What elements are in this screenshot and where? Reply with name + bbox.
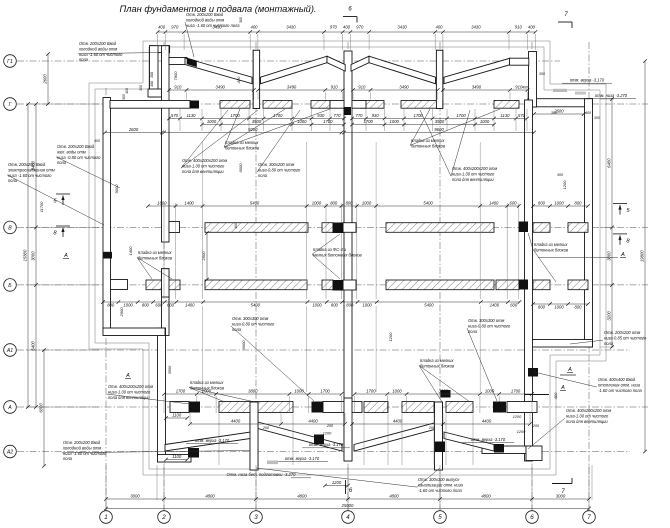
svg-text:Отв. 200х200 Ввод: Отв. 200х200 Ввод	[79, 41, 117, 46]
svg-text:низа-1.00 от чистого: низа-1.00 от чистого	[566, 413, 609, 418]
svg-text:Кладка из мелких: Кладка из мелких	[190, 380, 224, 385]
svg-text:200: 200	[262, 426, 270, 430]
svg-text:200: 200	[326, 424, 334, 428]
svg-text:1000: 1000	[207, 119, 217, 124]
svg-text:-1.60 от чистого пола: -1.60 от чистого пола	[598, 388, 643, 393]
svg-text:300: 300	[539, 72, 545, 76]
svg-text:570: 570	[518, 113, 526, 118]
svg-text:В: В	[8, 226, 12, 232]
diagonal walls	[185, 58, 252, 84]
svg-text:низа -1.60 от чистого: низа -1.60 от чистого	[79, 52, 123, 57]
svg-text:А: А	[63, 253, 68, 259]
svg-text:холодной воды отм: холодной воды отм	[78, 46, 117, 51]
svg-text:бетонных блоков: бетонных блоков	[190, 385, 225, 390]
svg-text:400: 400	[585, 111, 591, 115]
svg-text:800: 800	[330, 201, 338, 206]
svg-text:600: 600	[167, 303, 175, 308]
svg-text:7: 7	[587, 514, 591, 521]
svg-text:400: 400	[150, 81, 154, 87]
svg-text:низа-0.80 от чистого: низа-0.80 от чистого	[232, 321, 275, 326]
svg-text:пола для вентиляции: пола для вентиляции	[452, 177, 494, 182]
svg-text:жел. воды отм: жел. воды отм	[56, 149, 86, 154]
svg-text:1700: 1700	[456, 113, 466, 118]
svg-text:отм. низа -3.270: отм. низа -3.270	[595, 93, 628, 98]
svg-text:200: 200	[532, 424, 540, 428]
svg-text:3430: 3430	[471, 25, 481, 30]
svg-text:910: 910	[515, 25, 523, 30]
svg-text:1700: 1700	[176, 389, 186, 394]
svg-text:5400: 5400	[423, 201, 433, 206]
svg-text:1130: 1130	[186, 113, 196, 118]
svg-text:770: 770	[356, 113, 364, 118]
svg-text:4800: 4800	[389, 494, 399, 499]
svg-text:400: 400	[125, 88, 129, 94]
svg-text:бетонных блоков: бетонных блоков	[420, 363, 455, 368]
svg-text:Отв. 300х300 отм: Отв. 300х300 отм	[232, 316, 268, 321]
svg-text:1000: 1000	[312, 201, 322, 206]
svg-text:800: 800	[142, 303, 150, 308]
svg-text:Отв. 400х400 Ввод: Отв. 400х400 Ввод	[598, 377, 636, 382]
svg-text:пола: пола	[57, 160, 67, 165]
svg-text:Отв. 400х200х200 отм: Отв. 400х200х200 отм	[566, 408, 611, 413]
svg-text:Отм. низа бет. подготовки -3.2: Отм. низа бет. подготовки -3.270	[227, 472, 297, 477]
svg-text:Кладка из мелких: Кладка из мелких	[411, 138, 445, 143]
svg-text:отм. верха -3.170: отм. верха -3.170	[285, 456, 320, 461]
svg-text:400: 400	[343, 25, 351, 30]
svg-text:300: 300	[139, 85, 143, 91]
svg-text:3000: 3000	[607, 251, 612, 261]
svg-text:5400: 5400	[250, 201, 260, 206]
svg-text:1000: 1000	[297, 119, 307, 124]
svg-text:11700: 11700	[39, 201, 44, 213]
svg-text:Отв. 200х200 Ввод: Отв. 200х200 Ввод	[186, 12, 224, 17]
svg-text:Отв. 200х200 отм: Отв. 200х200 отм	[604, 330, 640, 335]
svg-text:3000: 3000	[130, 494, 140, 499]
svg-text:низа-1.00 от чистого: низа-1.00 от чистого	[108, 389, 151, 394]
svg-text:4800: 4800	[481, 494, 491, 499]
svg-text:400: 400	[158, 25, 166, 30]
svg-text:Кладка из ФС-4 и: Кладка из ФС-4 и	[313, 247, 347, 252]
svg-text:канализации отм. низа: канализации отм. низа	[418, 482, 464, 487]
svg-text:4800: 4800	[205, 494, 215, 499]
svg-text:800: 800	[538, 201, 546, 206]
svg-text:600: 600	[155, 303, 163, 308]
svg-text:Отв. 200х200 Ввод: Отв. 200х200 Ввод	[57, 144, 95, 149]
svg-text:низа-1.00 от чистого: низа-1.00 от чистого	[452, 171, 495, 176]
svg-text:1700: 1700	[364, 119, 374, 124]
svg-text:Г1: Г1	[7, 59, 13, 65]
svg-text:2600: 2600	[119, 307, 124, 318]
svg-text:отм. верха -3.170: отм. верха -3.170	[471, 437, 506, 442]
svg-text:бетонных блоков: бетонных блоков	[411, 143, 446, 148]
svg-text:800: 800	[538, 305, 546, 310]
svg-text:970: 970	[356, 25, 364, 30]
svg-text:6000: 6000	[241, 340, 246, 350]
svg-text:300: 300	[122, 94, 126, 100]
svg-text:570: 570	[171, 113, 179, 118]
svg-text:600: 600	[510, 201, 518, 206]
svg-text:низа-0.80 от чистого: низа-0.80 от чистого	[468, 323, 511, 328]
svg-text:1200: 1200	[332, 480, 342, 485]
svg-text:Отв. 400х200х200 отм: Отв. 400х200х200 отм	[108, 384, 153, 389]
svg-text:910: 910	[358, 85, 366, 90]
svg-text:2600: 2600	[43, 74, 48, 85]
svg-text:6: 6	[530, 514, 534, 521]
svg-text:пола: пола	[8, 178, 18, 183]
svg-text:А2: А2	[6, 450, 13, 456]
svg-text:19800: 19800	[640, 250, 645, 262]
svg-text:420: 420	[236, 76, 241, 83]
svg-text:электроснабжения отм: электроснабжения отм	[8, 167, 55, 172]
svg-text:6000: 6000	[39, 403, 44, 413]
svg-text:600: 600	[510, 303, 518, 308]
svg-text:400: 400	[94, 139, 100, 143]
foundation pads (hatched)	[220, 101, 250, 109]
svg-text:1000: 1000	[485, 389, 495, 394]
svg-text:3000: 3000	[31, 251, 36, 261]
svg-text:холодной воды отм: холодной воды отм	[185, 17, 224, 22]
svg-text:1700: 1700	[230, 113, 240, 118]
svg-text:4400: 4400	[231, 419, 241, 424]
svg-text:400: 400	[522, 86, 528, 90]
axis circles	[105, 508, 107, 511]
svg-text:2: 2	[161, 514, 166, 521]
svg-text:низа-1.00 от чистого: низа-1.00 от чистого	[182, 163, 225, 168]
svg-text:3490: 3490	[287, 85, 297, 90]
svg-text:3500: 3500	[252, 119, 262, 124]
svg-text:1200: 1200	[517, 430, 526, 434]
svg-text:400: 400	[528, 25, 536, 30]
svg-text:1: 1	[104, 514, 107, 521]
svg-text:1100: 1100	[172, 413, 182, 418]
svg-text:5400: 5400	[424, 303, 434, 308]
svg-text:низа -0.80 от чистого: низа -0.80 от чистого	[57, 155, 101, 160]
svg-text:1000: 1000	[312, 303, 322, 308]
svg-text:800: 800	[346, 201, 354, 206]
svg-text:бетонных блоков: бетонных блоков	[138, 255, 173, 260]
svg-text:800: 800	[331, 303, 339, 308]
svg-text:пола: пола	[604, 341, 614, 346]
svg-text:9600: 9600	[434, 127, 444, 132]
svg-text:пола: пола	[468, 329, 478, 334]
svg-text:низа-0.80 от чистого: низа-0.80 от чистого	[258, 167, 301, 172]
svg-text:1100: 1100	[172, 454, 182, 459]
svg-text:300: 300	[557, 173, 564, 177]
svg-text:400: 400	[234, 223, 238, 229]
svg-text:15800: 15800	[23, 249, 28, 261]
svg-text:1400: 1400	[490, 303, 500, 308]
svg-text:А: А	[7, 405, 12, 411]
svg-text:3: 3	[254, 514, 258, 521]
svg-text:-1.60 от чистого пола: -1.60 от чистого пола	[418, 488, 463, 493]
svg-text:1700: 1700	[320, 389, 330, 394]
svg-text:бетонных блоков: бетонных блоков	[225, 145, 260, 150]
svg-text:1700: 1700	[323, 119, 333, 124]
svg-text:930: 930	[372, 113, 380, 118]
svg-text:970: 970	[330, 25, 338, 30]
svg-text:1000: 1000	[392, 389, 402, 394]
svg-text:холодной воды отм: холодной воды отм	[62, 445, 101, 450]
svg-text:бетонных блоков: бетонных блоков	[534, 247, 569, 252]
svg-text:1000: 1000	[554, 305, 564, 310]
svg-text:5: 5	[438, 514, 442, 521]
svg-text:1200: 1200	[323, 432, 332, 436]
svg-text:4: 4	[346, 514, 350, 521]
svg-text:1000: 1000	[554, 201, 564, 206]
svg-text:А: А	[125, 373, 130, 379]
svg-text:низа -1.60 от чистого пола: низа -1.60 от чистого пола	[186, 23, 240, 28]
svg-text:970: 970	[171, 25, 179, 30]
svg-text:1200: 1200	[562, 180, 567, 190]
walls	[150, 46, 170, 53]
svg-text:1400: 1400	[128, 246, 133, 256]
svg-text:Отв. 400х200х200 отм: Отв. 400х200х200 отм	[452, 166, 497, 171]
svg-text:3430: 3430	[397, 25, 407, 30]
svg-text:1400: 1400	[184, 201, 194, 206]
svg-text:3430: 3430	[286, 25, 296, 30]
svg-text:Отв. 200х200 Ввод: Отв. 200х200 Ввод	[63, 440, 101, 445]
svg-text:800: 800	[346, 303, 354, 308]
svg-text:пола для вентиляции: пола для вентиляции	[182, 169, 224, 174]
svg-text:1700: 1700	[366, 389, 376, 394]
svg-text:5400: 5400	[251, 303, 261, 308]
svg-text:низа -1.60 от чистого: низа -1.60 от чистого	[63, 451, 107, 456]
svg-text:6000: 6000	[238, 163, 243, 173]
svg-text:1400: 1400	[489, 201, 499, 206]
svg-text:отопления отм. низа: отопления отм. низа	[598, 382, 641, 387]
svg-text:300: 300	[150, 72, 154, 78]
svg-text:1600: 1600	[157, 201, 167, 206]
svg-text:770: 770	[334, 113, 342, 118]
svg-text:800: 800	[575, 201, 583, 206]
svg-text:910: 910	[174, 85, 182, 90]
svg-text:1000: 1000	[362, 303, 372, 308]
svg-text:3490: 3490	[399, 85, 409, 90]
black squares	[190, 101, 200, 109]
svg-text:400: 400	[436, 25, 444, 30]
svg-text:1130: 1130	[500, 113, 510, 118]
svg-text:А: А	[620, 252, 625, 258]
svg-text:мелких бетонных блоков: мелких бетонных блоков	[313, 252, 363, 257]
svg-text:1400: 1400	[185, 303, 195, 308]
svg-text:1000: 1000	[390, 119, 400, 124]
svg-text:3500: 3500	[435, 119, 445, 124]
svg-text:300: 300	[239, 17, 243, 23]
svg-text:4800: 4800	[297, 494, 307, 499]
svg-text:А: А	[560, 385, 565, 391]
svg-text:Кладка из мелких: Кладка из мелких	[534, 242, 568, 247]
svg-text:200: 200	[428, 426, 436, 430]
svg-text:25000: 25000	[341, 503, 354, 508]
svg-text:1200: 1200	[513, 415, 522, 419]
svg-text:Отв. 300х300 отм: Отв. 300х300 отм	[468, 318, 504, 323]
svg-text:3500: 3500	[168, 365, 172, 374]
dimension chains	[158, 31, 536, 33]
svg-text:6400: 6400	[31, 341, 36, 351]
svg-text:800: 800	[575, 305, 583, 310]
svg-text:400: 400	[251, 25, 259, 30]
svg-text:300: 300	[551, 111, 558, 115]
svg-text:Кладка из мелких: Кладка из мелких	[138, 250, 172, 255]
svg-text:А: А	[567, 367, 572, 373]
svg-text:пола: пола	[79, 57, 89, 62]
svg-text:Кладка из мелких: Кладка из мелких	[420, 358, 454, 363]
svg-text:3800: 3800	[439, 389, 449, 394]
svg-text:3490: 3490	[216, 85, 226, 90]
svg-text:пола для вентиляции: пола для вентиляции	[108, 395, 150, 400]
svg-text:1200: 1200	[388, 332, 393, 342]
svg-text:3800: 3800	[248, 389, 258, 394]
svg-text:4400: 4400	[393, 419, 403, 424]
svg-text:3200: 3200	[607, 311, 612, 321]
svg-text:отм. верха -3.170: отм. верха -3.170	[570, 78, 605, 83]
svg-text:Отв. 200х200 Ввод: Отв. 200х200 Ввод	[8, 162, 46, 167]
svg-text:А1: А1	[6, 348, 13, 354]
svg-text:пола для вентиляции: пола для вентиляции	[566, 419, 608, 424]
svg-text:300: 300	[594, 116, 600, 120]
svg-text:1700: 1700	[511, 389, 521, 394]
svg-text:1000: 1000	[480, 119, 490, 124]
svg-text:800: 800	[107, 303, 115, 308]
svg-text:1000: 1000	[362, 201, 372, 206]
svg-text:400: 400	[553, 392, 558, 399]
svg-text:пола: пола	[258, 173, 268, 178]
svg-text:4400: 4400	[308, 419, 318, 424]
svg-text:низа -1.60 от чистого: низа -1.60 от чистого	[8, 173, 52, 178]
svg-text:930: 930	[317, 113, 325, 118]
svg-text:910: 910	[331, 85, 339, 90]
svg-text:низа-0.85 от чистого: низа-0.85 от чистого	[604, 335, 647, 340]
svg-text:пола: пола	[232, 327, 242, 332]
svg-text:2600: 2600	[128, 127, 139, 132]
svg-text:отм. верха -3.170: отм. верха -3.170	[309, 442, 344, 447]
svg-text:6400: 6400	[607, 158, 612, 168]
svg-text:7900: 7900	[173, 71, 178, 81]
svg-text:4400: 4400	[482, 419, 492, 424]
svg-text:пола: пола	[63, 456, 73, 461]
svg-text:1000: 1000	[123, 303, 133, 308]
svg-text:2600: 2600	[201, 251, 206, 262]
svg-text:3490: 3490	[472, 85, 482, 90]
svg-text:отм. верха -3.170: отм. верха -3.170	[195, 438, 230, 443]
